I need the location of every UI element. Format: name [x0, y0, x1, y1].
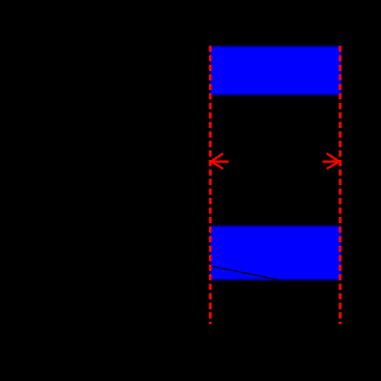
dimension arrow (left, pointing left) — [211, 153, 229, 168]
dashed extension line (right) — [339, 46, 342, 324]
dimension arrow (right, pointing right) — [323, 153, 340, 168]
capacitor plate (bottom) — [210, 226, 341, 280]
dashed extension line (left) — [209, 46, 212, 324]
leader line to bottom plate — [209, 266, 279, 280]
capacitor plate (top) — [210, 46, 341, 95]
